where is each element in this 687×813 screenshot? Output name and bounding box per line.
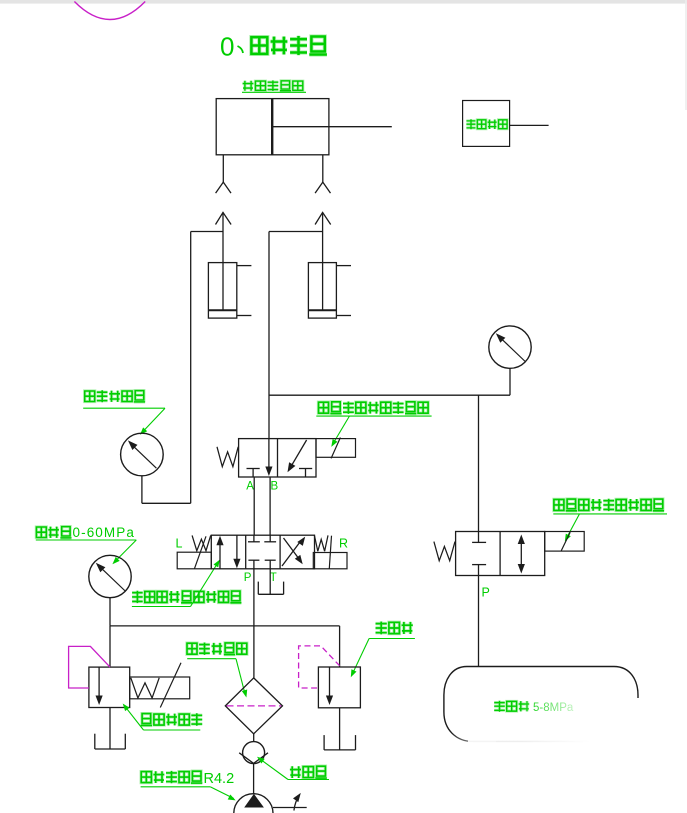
border: top gray strip (0, 0, 687, 110)
pump P1 flow triangle (244, 794, 264, 808)
wire: filter to check valve (253, 734, 255, 742)
filter F1 element (magenta dashed) (227, 705, 282, 707)
wire: gauge G2 drop (109, 598, 111, 626)
wire: right branch horizontal (269, 231, 323, 233)
tank symbol under V4 (95, 734, 126, 749)
valve V3 solenoid box (545, 532, 585, 552)
wire: V2 port P line down (253, 569, 255, 678)
label: 两位两通电磁换向阀 (2-pos 2-way solenoid valve) (553, 499, 667, 542)
tank symbol under V2 (258, 582, 283, 595)
pilot line (magenta dashed) of V5 (299, 646, 340, 688)
arrow: left flow arrow (open head) (216, 212, 232, 310)
cylinder C1: test workpiece cylinder body (216, 99, 329, 155)
wire: relief valve riser (339, 626, 341, 667)
valve V5: relief valve body (318, 667, 360, 708)
valve V4 internal flow arrow (96, 667, 103, 705)
cylinder C2: left plunger cylinder (208, 263, 251, 319)
svg-text:B: B (271, 481, 279, 493)
label: port T (270, 572, 277, 584)
valve V2 left solenoid half-box (177, 536, 211, 569)
wire: left branch horizontal (191, 231, 223, 233)
pump P1: circle (partially visible) (234, 794, 273, 813)
wire: V1 port A to V2 (253, 477, 255, 535)
svg-text:0: 0 (220, 32, 234, 62)
label: 压力传感器 (pressure sensor) (83, 390, 165, 435)
decorative magenta arc (logo remnant) (74, 2, 145, 20)
valve V3 spring (left) (434, 542, 455, 561)
cylinder C3: right plunger cylinder (308, 263, 351, 319)
label: 压力表0-60MPa (pressure gauge 0-60MPa) (36, 525, 137, 564)
check valve CV1 seat (239, 753, 268, 764)
check valve CV1: ball circle (243, 742, 265, 764)
valve V1 right position: blocked port (299, 469, 312, 478)
svg-text:A: A (246, 481, 254, 493)
wire: horizontal manifold to gauge G1 (269, 394, 510, 396)
label: 试验工件缸 (test workpiece cylinder) (242, 80, 306, 92)
svg-text:L: L (176, 537, 183, 551)
wire: V4 outlet to tank (109, 708, 111, 750)
overlay: white fade bottom-right (436, 698, 687, 813)
svg-text:0-60MPa: 0-60MPa (73, 525, 135, 540)
valve V2 left position: down arrow (233, 535, 240, 568)
label: 高压滤油器 (high-pressure filter) (187, 643, 247, 698)
label: L (176, 537, 183, 551)
valve V2 center position: blocked top ports (248, 535, 276, 542)
valve V5 internal flow arrow (326, 667, 333, 705)
cylinder C1 right mount leg with fork (315, 155, 330, 193)
label: port A (246, 481, 254, 493)
label: title 0、初始状态 (220, 32, 327, 62)
valve V4 spring/solenoid box (130, 663, 190, 708)
label: 蓄能器 5-8MPa (accumulator) (494, 701, 574, 714)
pilot line (magenta) of V4 (69, 646, 110, 688)
gauge G2 needle (96, 563, 125, 591)
svg-text:T: T (270, 572, 277, 584)
svg-text:R: R (339, 537, 348, 551)
sensor S1 needle (128, 440, 156, 468)
sensor S2: force sensor box 力传感器 (463, 101, 510, 147)
wire: sensor S1 connection (142, 476, 191, 503)
label: 比例溢流阀 (proportional relief valve) (123, 704, 203, 731)
wire: bottom manifold horizontal (110, 625, 340, 627)
valve V1 left position: blocked port A (247, 469, 260, 478)
cylinder C1 piston rod (272, 126, 392, 128)
valve V1 solenoid box (316, 438, 356, 459)
wire: gauge G1 drop line (509, 368, 511, 395)
label: 三位四通电磁换向阀 (3-pos 4-way solenoid valve) (132, 560, 242, 607)
valve V2 left solenoid: spring (192, 535, 211, 550)
sensor S1: pressure sensor circle (121, 433, 164, 476)
pump P1 variable displacement arrow (293, 793, 301, 811)
valve V1 spring (left) (217, 447, 238, 467)
label: R (339, 537, 348, 551)
wire: V1 port B to V2 (269, 477, 271, 535)
cylinder C1 left mount leg with fork (216, 155, 231, 193)
label: port B (271, 481, 279, 493)
wire: V4 inlet (109, 626, 111, 667)
valve V3 body (two position boxes) (456, 532, 545, 576)
valve V3 left position: blocked ports (472, 532, 486, 576)
svg-text:R4.2: R4.2 (204, 771, 235, 787)
valve V4: proportional relief valve body (89, 667, 130, 707)
svg-text:P: P (244, 572, 252, 584)
filter F1: diamond (225, 678, 282, 734)
valve V1 right position: crossed flow arrow (288, 440, 307, 472)
wire: left vertical line to pressure sensor node (190, 232, 192, 504)
svg-text:P: P (482, 586, 490, 600)
label: 径向柱塞泵R4.2 (radial piston pump R4.2) (141, 771, 236, 801)
label: 单向阀 (check valve) (257, 757, 329, 780)
wire: supply vertical to valve V1 (268, 232, 270, 439)
valve V2 center position: blocked bottom ports (248, 560, 275, 569)
label: 两位三通电磁换向阀 (2-pos 3-way solenoid valve) (316, 402, 431, 447)
valve V3 right position: double arrow (518, 535, 525, 574)
label: 溢流阀 (relief valve) (351, 622, 415, 678)
gauge G2: pressure gauge circle (89, 555, 131, 597)
wire: check valve to pump (253, 763, 255, 794)
valve V2 left position: up arrow (216, 536, 223, 569)
wire: vertical to valve V3 (478, 395, 480, 531)
wire: V2 port T to tank (269, 569, 271, 595)
wire: force sensor output line (510, 124, 549, 126)
valve V2 body (three position boxes) (211, 535, 314, 569)
valve V1 left position: through flow with arrow (265, 439, 272, 476)
valve V2 right solenoid: spring (314, 535, 328, 551)
wire: V3 to accumulator (478, 576, 480, 667)
tank symbol under V5 (324, 735, 355, 750)
label: port P (accumulator) (482, 586, 490, 600)
accumulator A1: gas bottle (faded bottom) (444, 667, 638, 742)
arrow: right flow arrow (open head) (315, 212, 331, 310)
valve V2 right solenoid half-box (313, 536, 347, 569)
pump P1 outlet stub (273, 807, 307, 809)
gauge G1 needle (496, 333, 525, 361)
valve V2 right position: crossed arrows (282, 537, 305, 566)
gauge G1: pressure gauge circle (489, 326, 531, 368)
wire: V5 outlet to tank (339, 708, 341, 750)
label: port P (244, 572, 252, 584)
valve V1 body (two position boxes) (239, 439, 316, 477)
